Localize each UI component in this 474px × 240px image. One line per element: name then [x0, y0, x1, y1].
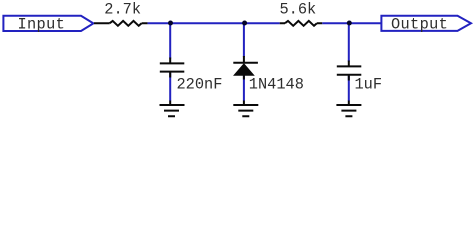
ground 2 [233, 101, 258, 117]
resistor R2 leads [280, 22, 323, 24]
svg-text:2.7k: 2.7k [104, 1, 141, 19]
svg-text:Output: Output [391, 15, 448, 33]
ground 3 [336, 101, 361, 117]
wire branch 1 vertical [169, 23, 171, 101]
wire main net segment 1 [148, 22, 280, 24]
node A junction dot [168, 21, 173, 26]
svg-text:1N4148: 1N4148 [249, 76, 304, 94]
svg-text:1uF: 1uF [355, 76, 383, 94]
wire branch 2 vertical [243, 23, 245, 101]
resistor R1 zigzag [110, 21, 142, 26]
output flag [381, 16, 471, 31]
capacitor C1 [160, 58, 185, 78]
wire main net segment 2 [322, 22, 381, 24]
node B junction dot [242, 21, 247, 26]
capacitor C2 [337, 61, 362, 81]
svg-text:Input: Input [18, 15, 66, 33]
wire branch 3 vertical [348, 23, 350, 101]
input flag [3, 16, 93, 31]
resistor R1 leads [94, 22, 148, 24]
svg-text:220nF: 220nF [177, 76, 223, 94]
diode D1 1N4148 [233, 56, 258, 80]
ground 1 [160, 101, 185, 117]
node C junction dot [347, 21, 352, 26]
resistor R2 zigzag [285, 21, 317, 26]
svg-text:5.6k: 5.6k [280, 1, 317, 19]
